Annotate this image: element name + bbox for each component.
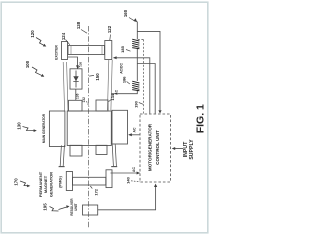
svg-text:(PMG): (PMG) xyxy=(57,175,62,187)
svg-text:138: 138 xyxy=(76,21,81,29)
svg-text:MOTOR/GENERATOR: MOTOR/GENERATOR xyxy=(147,123,152,171)
svg-text:100: 100 xyxy=(25,60,30,68)
svg-text:CONTROL UNIT: CONTROL UNIT xyxy=(155,130,160,165)
svg-text:GENERATOR: GENERATOR xyxy=(48,172,53,197)
svg-text:136: 136 xyxy=(76,93,80,99)
svg-text:160: 160 xyxy=(123,9,128,17)
svg-text:120: 120 xyxy=(30,30,35,38)
svg-text:122: 122 xyxy=(107,25,112,33)
svg-text:185: 185 xyxy=(120,45,125,52)
svg-text:FIG. 1: FIG. 1 xyxy=(195,104,207,133)
svg-text:170: 170 xyxy=(14,178,19,186)
svg-text:EXCITER: EXCITER xyxy=(54,45,58,60)
svg-text:SUPPLY: SUPPLY xyxy=(189,139,195,160)
svg-text:132: 132 xyxy=(82,97,86,103)
svg-text:UNIT: UNIT xyxy=(74,203,78,210)
svg-text:AC: AC xyxy=(115,89,119,94)
svg-text:190: 190 xyxy=(133,100,138,107)
svg-text:AC: AC xyxy=(132,167,136,172)
svg-text:172: 172 xyxy=(93,188,98,195)
svg-text:AC: AC xyxy=(132,127,136,132)
svg-text:195: 195 xyxy=(43,203,48,211)
svg-text:126: 126 xyxy=(79,61,83,66)
svg-text:140: 140 xyxy=(125,176,130,183)
svg-text:124: 124 xyxy=(61,32,66,40)
svg-text:MAIN GENERATOR: MAIN GENERATOR xyxy=(42,113,46,143)
svg-text:AC/DC: AC/DC xyxy=(119,62,123,73)
svg-text:186: 186 xyxy=(121,76,126,83)
svg-text:130: 130 xyxy=(17,122,22,130)
svg-text:150: 150 xyxy=(95,73,100,81)
